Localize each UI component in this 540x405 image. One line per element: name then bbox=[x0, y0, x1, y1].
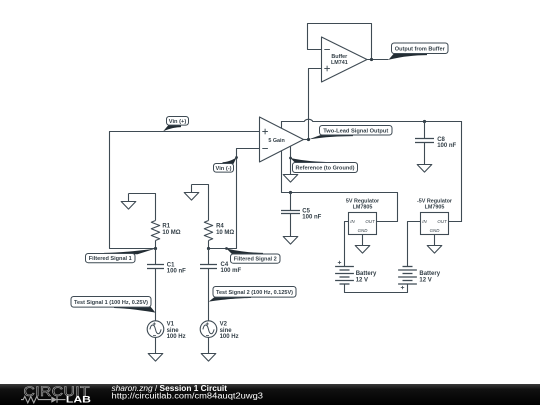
svg-text:LAB: LAB bbox=[66, 395, 91, 405]
op-amp U2 buffer LM741 bbox=[322, 37, 368, 82]
capacitor C4 bbox=[200, 265, 217, 269]
ground V1 bbox=[148, 354, 163, 362]
svg-text:100 mF: 100 mF bbox=[221, 268, 242, 274]
footer CircuitLab branding bar bbox=[0, 384, 540, 405]
svg-text:Battery: Battery bbox=[419, 271, 440, 277]
label Vin minus bbox=[214, 158, 237, 173]
regulator U4 LM7905 bbox=[417, 199, 453, 235]
svg-text:V1: V1 bbox=[167, 322, 175, 328]
svg-text:10 MΩ: 10 MΩ bbox=[216, 230, 234, 236]
capacitor C4 lead bottom bbox=[208, 269, 210, 321]
wire V2 to ground bbox=[208, 337, 210, 353]
label Vin plus bbox=[163, 117, 188, 132]
svg-text:sine: sine bbox=[220, 328, 233, 334]
wire R4 top to ground rail bbox=[192, 185, 209, 221]
ground R1 bbox=[121, 194, 136, 210]
wire buffer feedback loop bbox=[308, 24, 372, 60]
svg-text:Buffer: Buffer bbox=[331, 54, 348, 60]
ground 7905 bbox=[427, 246, 442, 254]
node buffer output bbox=[370, 58, 373, 61]
capacitor C1 bbox=[147, 265, 164, 269]
wire battery1 minus to battery2 plus bbox=[345, 284, 408, 293]
ground V2 bbox=[201, 354, 216, 362]
label Filtered Signal 2 bbox=[227, 249, 280, 264]
wire V+ rail bbox=[282, 151, 398, 222]
svg-text:LM7905: LM7905 bbox=[425, 205, 445, 211]
node C5 top bbox=[289, 191, 292, 194]
wire 7905 IN to battery2 bbox=[408, 222, 421, 267]
wire Vin+ net bbox=[110, 132, 260, 249]
capacitor C8 lead bottom bbox=[424, 143, 426, 165]
resistor R1 bbox=[151, 221, 159, 241]
source V1 bbox=[147, 321, 164, 338]
battery V4 12V bbox=[398, 267, 417, 290]
svg-text:Filtered Signal 2: Filtered Signal 2 bbox=[234, 257, 277, 263]
svg-text:LM741: LM741 bbox=[331, 60, 348, 66]
svg-text:Reference (to Ground): Reference (to Ground) bbox=[296, 166, 355, 172]
svg-text:OUT: OUT bbox=[437, 219, 447, 224]
svg-text:R4: R4 bbox=[216, 224, 224, 230]
svg-text:100 Hz: 100 Hz bbox=[167, 334, 186, 340]
wire 7805 IN to battery1 bbox=[345, 222, 349, 267]
svg-text:100 nF: 100 nF bbox=[167, 268, 186, 274]
ground R4 bbox=[184, 185, 199, 201]
svg-text:Two-Lead Signal Output: Two-Lead Signal Output bbox=[323, 128, 388, 134]
svg-text:sine: sine bbox=[167, 328, 180, 334]
wire R1 top to ground rail bbox=[129, 194, 156, 221]
amplifier U1 5 Gain bbox=[260, 117, 304, 162]
capacitor C5 bbox=[281, 211, 300, 214]
node filtered signal 2 bbox=[207, 247, 210, 250]
wire V1 to ground bbox=[155, 337, 157, 353]
label Output from Buffer bbox=[389, 43, 449, 60]
ground below C8 bbox=[417, 165, 432, 173]
wire REF pin bbox=[290, 146, 292, 174]
svg-text:R1: R1 bbox=[162, 224, 170, 230]
wire Vin- net bbox=[209, 149, 260, 249]
source V2 bbox=[200, 321, 217, 338]
svg-text:12 V: 12 V bbox=[419, 277, 431, 283]
svg-text:Test Signal 2 (100 Hz, 0.125V): Test Signal 2 (100 Hz, 0.125V) bbox=[216, 290, 293, 296]
svg-text:GND: GND bbox=[430, 228, 441, 233]
svg-text:Filtered Signal 1: Filtered Signal 1 bbox=[89, 256, 132, 262]
wire R4 bottom bbox=[208, 241, 210, 249]
capacitor C5 lead top bbox=[290, 193, 292, 211]
label Two-Lead Signal Output bbox=[309, 126, 392, 140]
wire V- rail with hop bbox=[282, 119, 462, 221]
battery V3 12V bbox=[335, 261, 354, 284]
svg-text:100 nF: 100 nF bbox=[302, 215, 321, 221]
wire 7805 GND bbox=[362, 235, 364, 246]
svg-text:12 V: 12 V bbox=[356, 277, 368, 283]
svg-text:100 Hz: 100 Hz bbox=[220, 334, 239, 340]
node reference anchor bbox=[289, 157, 292, 160]
svg-text:Vin (-): Vin (-) bbox=[216, 166, 232, 172]
wire buffer plus input from gain output bbox=[309, 69, 322, 140]
capacitor C5 lead bottom bbox=[290, 214, 292, 237]
node gain output bbox=[307, 138, 310, 141]
capacitor C8 lead top bbox=[424, 122, 426, 139]
svg-text:10 MΩ: 10 MΩ bbox=[162, 230, 180, 236]
capacitor C4 lead top bbox=[208, 249, 210, 265]
svg-text:100 nF: 100 nF bbox=[437, 143, 456, 149]
wire R1 bottom bbox=[155, 241, 157, 249]
node filtered signal 2 anchor bbox=[225, 247, 228, 250]
svg-text:OUT: OUT bbox=[365, 219, 375, 224]
svg-text:Test Signal 1 (100 Hz, 0.25V): Test Signal 1 (100 Hz, 0.25V) bbox=[74, 300, 148, 306]
svg-text:GND: GND bbox=[358, 228, 369, 233]
capacitor C8 bbox=[415, 139, 434, 143]
svg-text:V2: V2 bbox=[220, 322, 228, 328]
label Filtered Signal 1 bbox=[86, 249, 156, 263]
ground below C5 bbox=[283, 237, 298, 245]
capacitor C1 lead bottom bbox=[155, 269, 157, 321]
svg-text:Output from Buffer: Output from Buffer bbox=[395, 46, 446, 52]
svg-text:5 Gain: 5 Gain bbox=[268, 138, 284, 144]
ground REF bbox=[283, 175, 298, 183]
svg-text:Battery: Battery bbox=[356, 271, 377, 277]
svg-text:Vin (+): Vin (+) bbox=[169, 119, 187, 125]
wire 7905 GND bbox=[434, 235, 436, 246]
node filtered signal 1 bbox=[154, 247, 157, 250]
svg-text:LM7805: LM7805 bbox=[353, 205, 373, 211]
resistor R4 bbox=[204, 221, 212, 241]
label Reference to Ground bbox=[290, 158, 357, 173]
regulator U3 LM7805 bbox=[346, 199, 380, 235]
label Test Signal 2 bbox=[209, 287, 296, 302]
wire gain output to node bbox=[304, 139, 309, 141]
capacitor C1 lead top bbox=[155, 249, 157, 265]
ground 7805 bbox=[355, 246, 370, 254]
node C8 top bbox=[423, 120, 426, 123]
label Test Signal 1 bbox=[71, 297, 155, 313]
wire buffer output stub bbox=[367, 59, 389, 61]
svg-text:http://circuitlab.com/cm84auqt: http://circuitlab.com/cm84auqt2uwg3 bbox=[112, 392, 264, 401]
node vin- anchor bbox=[235, 156, 238, 159]
